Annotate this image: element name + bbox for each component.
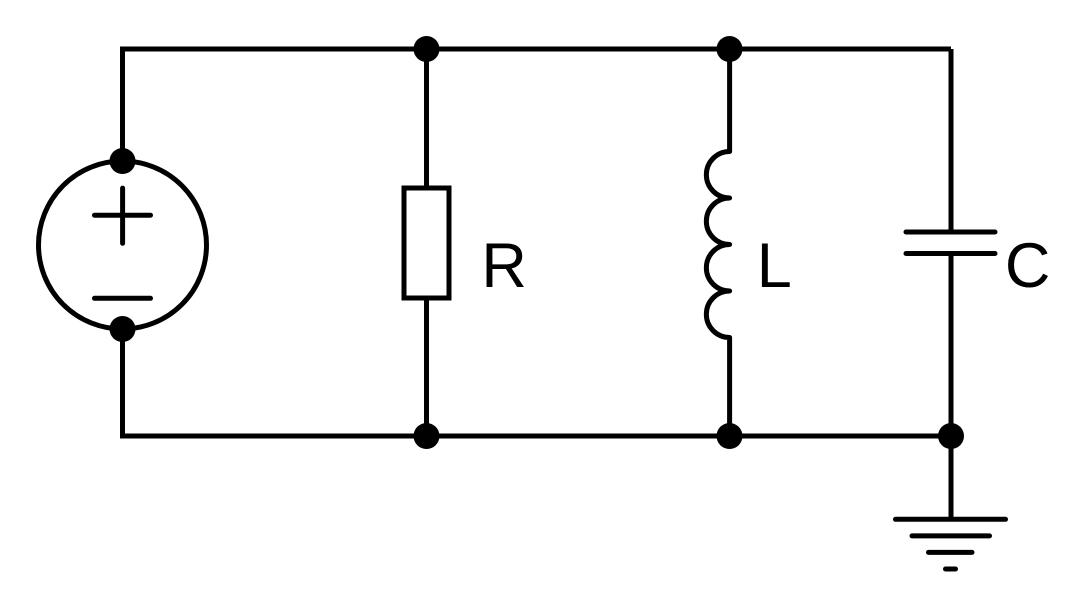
ground bar 1 bbox=[896, 517, 1006, 522]
wire top rail bbox=[123, 47, 952, 52]
capacitor C bottom plate bbox=[906, 251, 995, 256]
svg-text:L: L bbox=[757, 231, 792, 301]
ground bar 3 bbox=[929, 550, 973, 555]
node dot top L bbox=[717, 36, 743, 62]
wire bottom rail bbox=[123, 434, 952, 439]
wire capacitor bottom lead bbox=[949, 254, 954, 437]
capacitor C top plate bbox=[906, 230, 995, 235]
node dot bottom R bbox=[414, 423, 440, 449]
wire ground stem bbox=[949, 436, 954, 519]
node dot top R bbox=[414, 36, 440, 62]
resistor R bbox=[404, 188, 449, 298]
ground bar 4 bbox=[946, 567, 956, 572]
node dot bottom C / ground bbox=[938, 423, 964, 449]
minus sign bbox=[95, 296, 151, 301]
wire capacitor top lead bbox=[949, 49, 954, 232]
svg-text:R: R bbox=[481, 231, 527, 301]
plus sign bbox=[95, 188, 151, 243]
wire resistor bottom lead bbox=[424, 298, 429, 436]
node dot bottom L bbox=[717, 423, 743, 449]
voltage source V1 bbox=[39, 161, 207, 329]
wire resistor top lead bbox=[424, 49, 429, 188]
svg-text:C: C bbox=[1005, 231, 1051, 301]
node dot source bottom bbox=[110, 316, 136, 342]
node dot source top bbox=[110, 148, 136, 174]
ground bar 2 bbox=[912, 533, 990, 538]
inductor L bbox=[706, 49, 729, 436]
wire source bottom lead bbox=[120, 329, 125, 439]
wire source top lead bbox=[120, 47, 125, 162]
